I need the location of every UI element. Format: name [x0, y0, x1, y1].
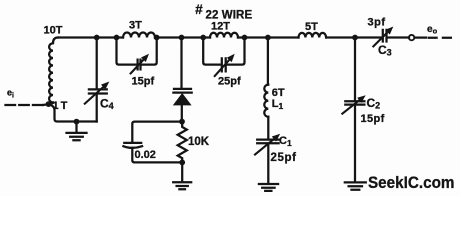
wire L1 to C1	[267, 117, 269, 139]
capacitor C4 plates	[89, 89, 107, 93]
wire varactor bottom	[181, 105, 183, 122]
wire C1 bottom	[267, 144, 269, 183]
svg-text:ei: ei	[7, 88, 14, 100]
wire 12T tank left side	[203, 38, 220, 65]
capacitor C3 plates	[383, 30, 387, 42]
arrow of 25pf	[214, 54, 235, 77]
wire varactor top	[180, 38, 182, 88]
wire C4 branch bottom	[96, 95, 98, 122]
svg-text:25pf: 25pf	[271, 152, 297, 164]
wire C2 bottom	[354, 106, 356, 182]
svg-text:#: #	[195, 2, 203, 17]
svg-text:C3: C3	[378, 43, 392, 58]
ground G1	[67, 122, 87, 141]
arrow of 15pf	[130, 54, 149, 74]
inductor L1 6T	[264, 85, 268, 117]
arrow of C3	[373, 27, 394, 48]
wire 1T bottom lead	[49, 104, 97, 121]
svg-text:C2: C2	[367, 96, 381, 111]
arrow of C4	[84, 82, 109, 105]
wire 12T tank right side	[227, 38, 244, 65]
node 3T tank left	[114, 35, 120, 41]
svg-text:25pf: 25pf	[218, 75, 241, 87]
node detector junction	[179, 119, 185, 125]
svg-text:C1: C1	[279, 135, 292, 148]
capacitor 25pf plates	[222, 58, 226, 71]
wire 3T tank right side	[142, 38, 157, 65]
wire bus seg4	[326, 36, 381, 38]
wire L1 branch top	[267, 38, 269, 85]
node varactor branch	[179, 35, 185, 41]
diode D1 varactor	[173, 89, 191, 93]
wire bus after C3	[389, 36, 410, 38]
svg-text:15pf: 15pf	[132, 75, 155, 87]
svg-text:10K: 10K	[188, 136, 210, 148]
wire 0.02 branch bottom	[132, 148, 182, 163]
arrow of C1	[254, 134, 280, 155]
svg-text:eo: eo	[427, 24, 438, 36]
wire C2 branch top	[354, 38, 356, 101]
inductor 3T	[123, 33, 155, 38]
node 12T tank left	[200, 35, 206, 41]
wire main top bus left	[58, 36, 123, 38]
wire bus seg2	[155, 36, 210, 38]
inductor 5T	[299, 33, 327, 38]
capacitor C2 plates	[345, 101, 364, 104]
wire ei lead	[6, 104, 45, 106]
svg-text:SeekIC.com: SeekIC.com	[368, 173, 455, 192]
resistor 10K	[178, 122, 187, 163]
svg-text:5T: 5T	[305, 21, 318, 33]
ground G2	[173, 162, 191, 189]
svg-text:10T: 10T	[44, 25, 63, 37]
inductor 12T	[210, 33, 238, 38]
svg-text:L1: L1	[272, 98, 284, 111]
terminal eo circle	[409, 35, 414, 40]
arrow of C2	[342, 95, 366, 114]
svg-text:3T: 3T	[129, 20, 142, 32]
svg-text:15pf: 15pf	[361, 113, 385, 125]
capacitor C1 plates	[257, 140, 278, 144]
ground G3	[259, 184, 278, 191]
capacitor 15pf plates	[138, 60, 141, 70]
wire 3T tank left side	[117, 38, 137, 65]
node ei tap junction	[46, 101, 52, 107]
wire eo	[415, 36, 426, 38]
svg-text:C4: C4	[100, 97, 114, 112]
node 3T tank right	[154, 35, 160, 41]
wire C4 branch top	[96, 38, 98, 89]
transformer T1 10T winding	[49, 38, 58, 105]
svg-text:3pf: 3pf	[368, 17, 386, 29]
svg-text:12T: 12T	[211, 21, 230, 33]
node resistor bottom	[179, 160, 185, 166]
wire 0.02 branch top	[132, 122, 182, 143]
svg-text:0.02: 0.02	[135, 149, 156, 161]
node bus-C4	[94, 35, 100, 41]
node 12T tank right	[242, 35, 248, 41]
svg-text:1T: 1T	[53, 100, 70, 112]
node C2 branch	[352, 35, 358, 41]
wire bus seg3	[238, 36, 299, 38]
capacitor 0.02	[123, 143, 142, 148]
node L1 branch	[265, 35, 271, 41]
node ground junction left	[74, 119, 80, 125]
ground G4	[345, 182, 366, 189]
